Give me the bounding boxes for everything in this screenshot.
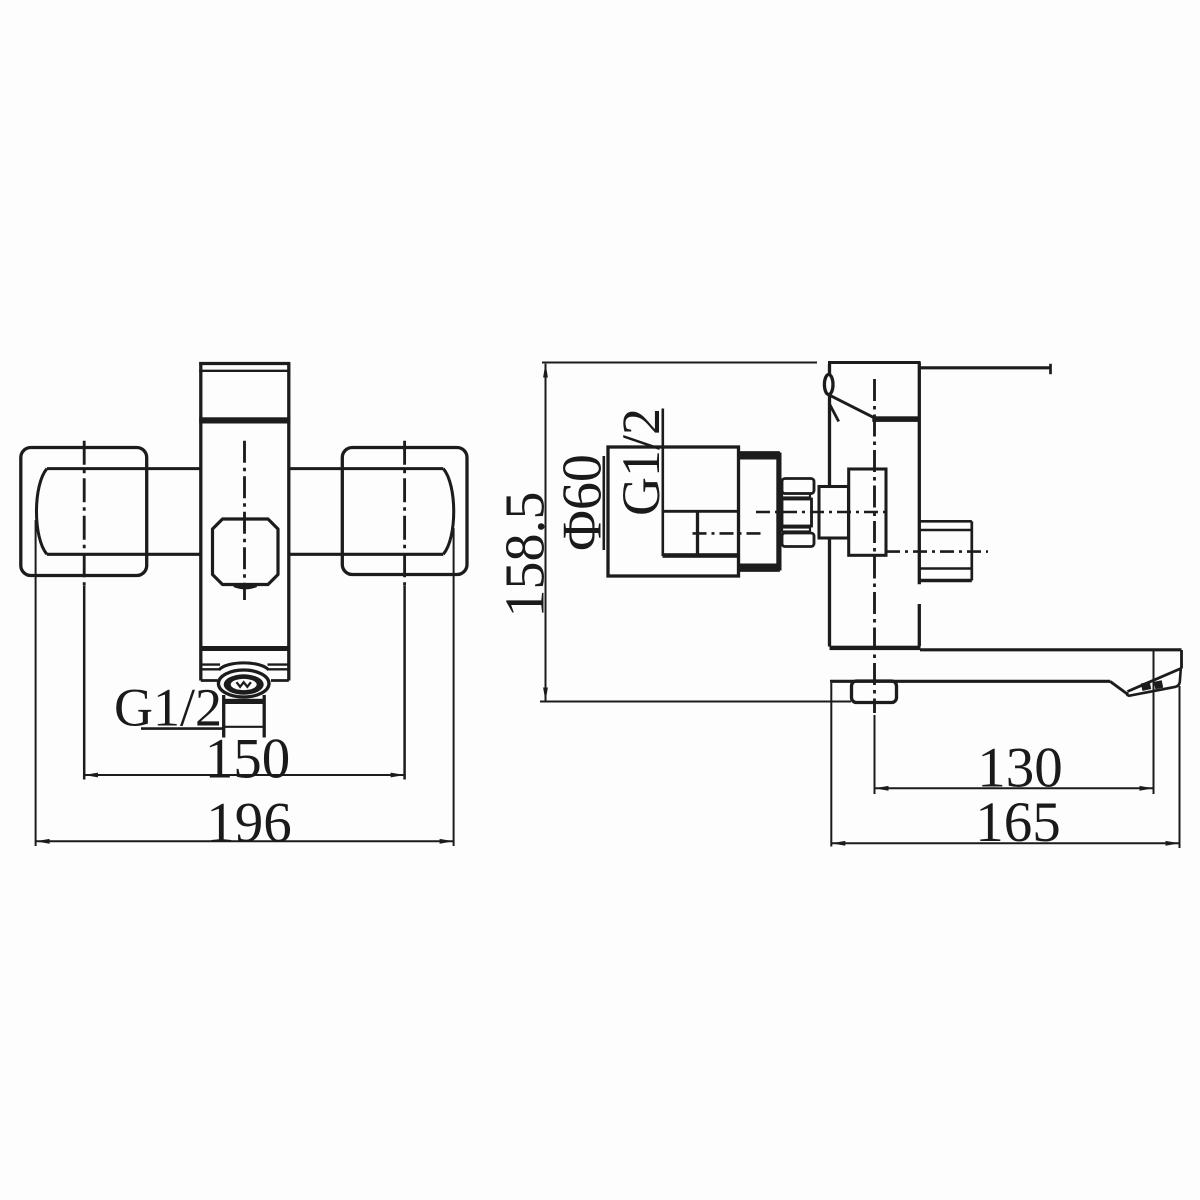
dimension line 196 [36,840,454,842]
body dark band [199,417,290,423]
lever pivot ellipse [824,375,833,395]
connecting bar top lines [47,467,443,470]
extension 130 left [874,715,876,794]
dimension line 165 [831,842,1179,844]
dimension line 150 [84,774,404,776]
arrow 150 left [84,773,98,778]
side body right edge [918,363,921,647]
aerator dark ring [224,674,264,694]
thread neck A [782,494,810,498]
dimension line 158.5 [545,364,547,701]
body lower thin line A [201,663,289,665]
right handle [342,448,467,575]
spout tip aerator mark B [1154,680,1163,689]
body bottom edge [201,679,289,682]
cap top band [739,453,779,460]
arrow 150 right [391,773,405,778]
svg-text:Φ60: Φ60 [551,454,613,551]
thread neck B [782,528,810,532]
thread ridge top [782,479,814,494]
aerator inner white face [231,679,257,690]
extension 130 right [1153,650,1155,795]
connecting bar bottom lines [47,553,443,556]
cartridge rect [849,469,886,555]
knob bottom shadow arc [234,586,257,588]
check valve inner line A [919,529,972,531]
spout top edge [920,648,1182,651]
diverter knob [213,519,279,585]
dim 158.5 top tick [542,362,817,364]
arrow 158.5 bottom [543,688,548,702]
svg-text:G1/2: G1/2 [611,408,671,516]
extension 165 right [1179,686,1181,848]
G1/2 leader underline (front) [141,727,224,730]
spout bottom tip diagonal [1110,681,1128,694]
outlet pipe G1/2 [224,695,265,738]
body shoulder diagonal [830,404,839,422]
flange square [819,487,849,539]
aerator outer ellipse [218,670,269,697]
centerline body (front) [243,441,246,600]
centerline left handle [83,441,86,586]
lever end tick [1049,364,1052,374]
spout tip aerator mark A [1141,682,1151,691]
dimension line 130 [875,787,1154,789]
extension 196 left [35,520,37,846]
spout top thick [830,646,921,650]
spout tip face upper [1128,669,1181,692]
aerator lower band [223,699,264,704]
left handle inner arc [36,469,46,555]
body column outline [201,363,289,681]
outlet pipe joint line [224,726,265,728]
arrow 165 left [831,841,845,846]
arrow 130 left [875,786,889,791]
body top edge [199,362,290,365]
extension 196 right [453,528,455,846]
extension 165 left [830,683,832,847]
bonnet dark band [872,416,919,422]
arrow 165 right [1166,841,1180,846]
arrow 196 left [36,839,50,844]
cap bottom band [739,564,779,571]
thread middle [782,499,812,526]
shower hose nub [852,681,897,703]
arrow 158.5 top [543,363,548,378]
svg-text:196: 196 [206,792,292,855]
spout right end edge [1180,650,1183,669]
dim 158.5 bottom tick [540,701,851,703]
check valve inner line B [919,567,972,569]
cap cylinder [739,453,779,571]
cap right thick edge [776,453,781,571]
body bottom thick shelf [200,646,290,651]
body lower thin line B [201,668,289,670]
svg-text:165: 165 [975,791,1061,854]
right handle inner arc [443,469,453,555]
body top inner line [199,370,290,372]
spout bottom edge [830,680,1110,683]
lever underside diagonal [831,396,875,418]
centerline right handle [403,441,406,586]
G1/2 underline leader (side) [661,409,664,557]
union inner horizontal [663,510,739,513]
side body axis centerline [873,379,876,713]
left handle [21,448,147,576]
aerator mesh marks [237,682,251,687]
union thick bottom [663,553,739,558]
side body left edge [828,364,831,647]
lever arm [921,366,1051,369]
check valve nub top [919,520,972,523]
Phi60 underline [602,456,605,550]
svg-text:150: 150 [205,728,291,791]
escutcheon square [608,447,739,576]
spout tip face lower [1127,669,1181,696]
nipple axis centerline [756,511,886,514]
check valve nub right edge [970,521,973,580]
aerator dome [219,663,269,670]
check valve axis centerline [886,550,988,553]
arrow 196 right [440,839,454,844]
union notch vertical [696,511,699,555]
side body top edge [828,361,921,364]
arrow 130 right [1140,786,1154,791]
svg-text:158.5: 158.5 [494,492,556,618]
check valve bottom [919,579,972,582]
union axis centerline [693,532,763,535]
thread ridge bottom [782,533,814,547]
